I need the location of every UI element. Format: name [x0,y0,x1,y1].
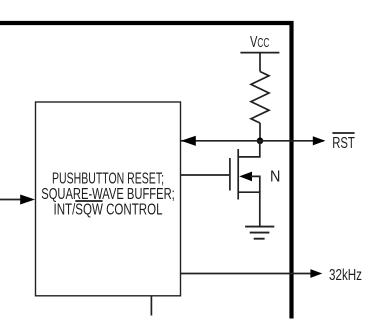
arrowhead 32kHz [310,269,322,278]
resistor R1 (pull-up) [251,72,269,124]
svg-text:32kHz: 32kHz [329,267,362,284]
svg-text:SQUARE-WAVE BUFFER;: SQUARE-WAVE BUFFER; [41,186,175,203]
transistor Q1 channel bar [237,149,239,200]
drain wire: channel to node A [238,141,260,157]
block U1: pushbutton reset / buffer box [36,102,181,296]
arrowhead into box left edge [20,195,35,205]
node A junction dot [257,138,264,145]
wire: input arrow into box (left) [0,199,21,201]
transistor Q1 (NMOS) gate bar [229,158,231,191]
svg-text:INT/SQW CONTROL: INT/SQW CONTROL [54,202,163,219]
overline over SQW [75,200,102,202]
arrowhead toward RST (right) [313,136,326,145]
chip boundary (thick corner frame) [0,23,292,319]
wire: RST line (box to RST pin) [181,140,324,142]
body wire to source [251,176,260,192]
wire: 32kHz output [181,273,313,275]
body arrow of Q1 [239,172,252,182]
wire: box to transistor gate [181,174,230,176]
ground symbol [245,226,274,228]
wire: bottom stub below box [150,296,152,316]
wire: Vcc bar to resistor top [259,53,261,72]
svg-text:CC: CC [257,35,269,50]
Vcc power rail bar [240,52,279,54]
svg-text:RST: RST [332,135,355,152]
arrowhead into box (left) [181,136,196,146]
RST pin label with overline [332,132,354,134]
svg-text:N: N [270,169,280,186]
source wire: channel to ground drop [238,192,260,226]
wire: resistor bottom to node A [259,123,261,141]
